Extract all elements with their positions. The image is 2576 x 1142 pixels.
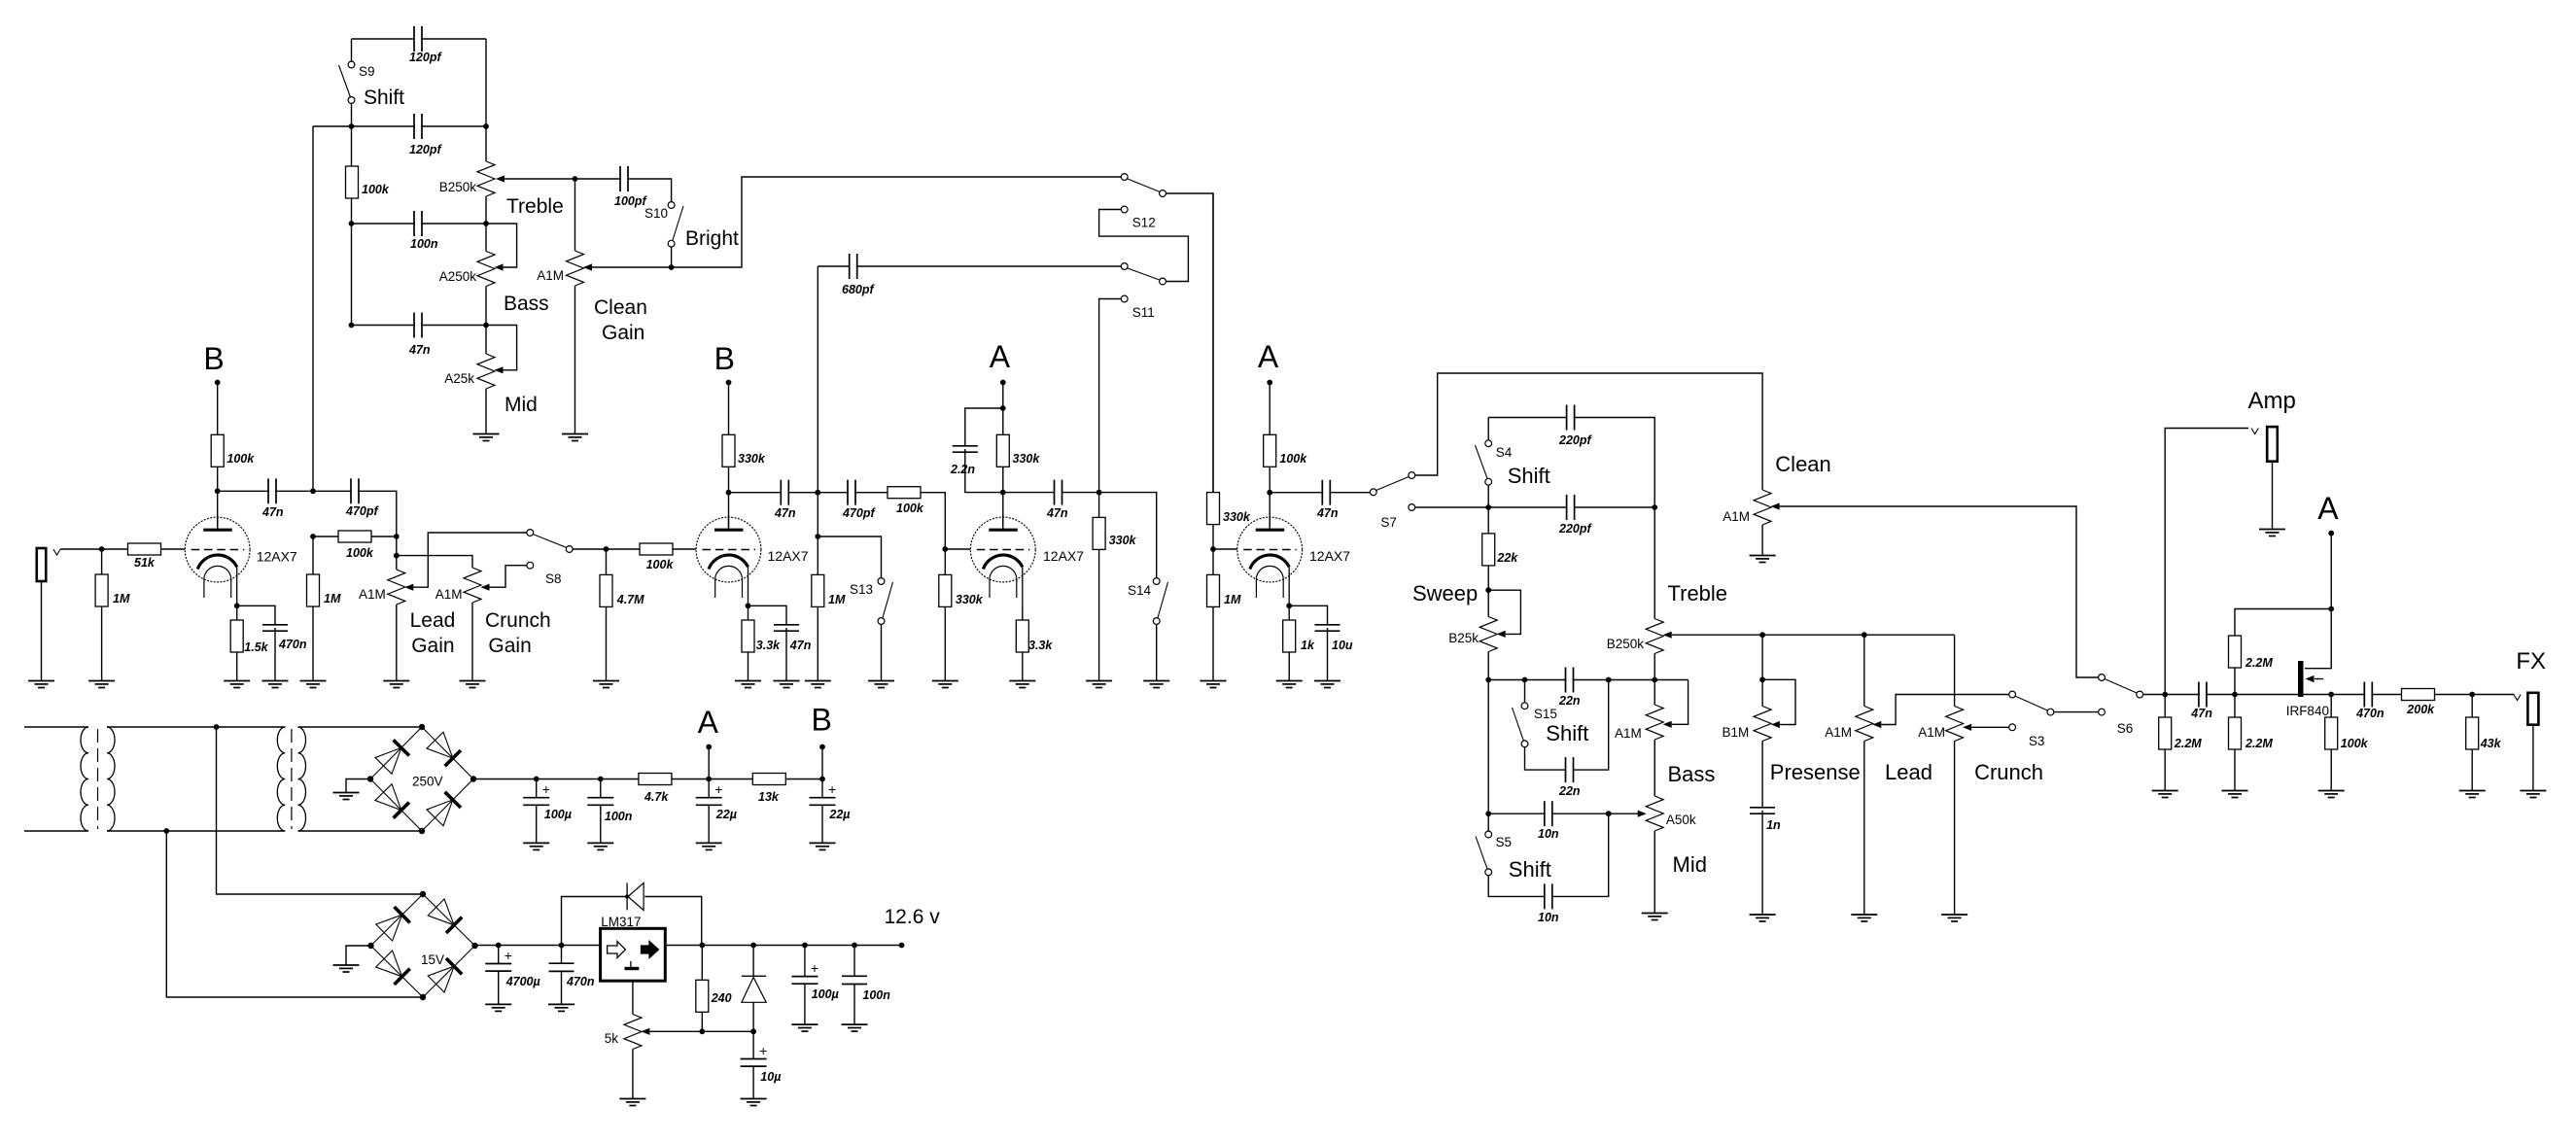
svg-text:4.7M: 4.7M xyxy=(616,593,644,606)
svg-text:3.3k: 3.3k xyxy=(1028,639,1053,652)
svg-text:S6: S6 xyxy=(2117,721,2134,736)
svg-text:S8: S8 xyxy=(545,571,562,586)
svg-text:1M: 1M xyxy=(113,592,130,606)
svg-text:Bass: Bass xyxy=(504,293,549,315)
svg-text:A1M: A1M xyxy=(435,587,463,602)
svg-text:Sweep: Sweep xyxy=(1412,581,1478,606)
svg-text:S10: S10 xyxy=(644,206,668,221)
svg-text:Clean: Clean xyxy=(594,296,647,319)
svg-text:100k: 100k xyxy=(896,502,924,515)
svg-text:12AX7: 12AX7 xyxy=(1043,548,1084,564)
svg-text:12AX7: 12AX7 xyxy=(1309,548,1350,564)
svg-text:47n: 47n xyxy=(1046,506,1068,520)
svg-text:1M: 1M xyxy=(828,593,846,606)
svg-text:250V: 250V xyxy=(412,775,443,789)
svg-text:100k: 100k xyxy=(362,183,390,196)
svg-text:47n: 47n xyxy=(408,343,431,357)
svg-text:10n: 10n xyxy=(1538,911,1559,924)
svg-text:47n: 47n xyxy=(774,506,796,520)
svg-text:22n: 22n xyxy=(1558,784,1581,798)
svg-text:Crunch: Crunch xyxy=(485,609,551,632)
svg-text:5k: 5k xyxy=(605,1031,619,1046)
svg-text:B: B xyxy=(203,341,224,376)
svg-text:Presense: Presense xyxy=(1770,760,1861,784)
svg-text:A50k: A50k xyxy=(1666,813,1696,827)
svg-text:10u: 10u xyxy=(1332,639,1353,652)
svg-text:Gain: Gain xyxy=(411,635,454,657)
svg-text:+: + xyxy=(759,1043,767,1058)
svg-text:1n: 1n xyxy=(1766,818,1781,832)
svg-text:A1M: A1M xyxy=(537,268,564,283)
svg-text:4.7k: 4.7k xyxy=(644,790,669,804)
svg-text:A1M: A1M xyxy=(1615,726,1642,741)
svg-text:+: + xyxy=(811,960,818,976)
svg-text:Crunch: Crunch xyxy=(1974,760,2043,784)
svg-text:330k: 330k xyxy=(738,452,766,466)
svg-text:A1M: A1M xyxy=(359,587,386,602)
svg-text:A: A xyxy=(990,339,1011,374)
svg-text:200k: 200k xyxy=(2406,703,2435,716)
svg-text:+: + xyxy=(714,781,722,797)
svg-text:Gain: Gain xyxy=(488,635,531,657)
svg-text:B1M: B1M xyxy=(1723,725,1750,740)
svg-text:S5: S5 xyxy=(1496,835,1513,849)
svg-text:1.5k: 1.5k xyxy=(244,640,268,654)
svg-text:S3: S3 xyxy=(2029,734,2045,748)
svg-text:Shift: Shift xyxy=(1546,721,1588,745)
svg-text:A1M: A1M xyxy=(1918,725,1945,740)
svg-text:470pf: 470pf xyxy=(345,504,379,518)
svg-text:Shift: Shift xyxy=(1508,464,1550,488)
svg-text:47n: 47n xyxy=(2190,707,2212,720)
svg-text:Shift: Shift xyxy=(364,87,404,109)
svg-text:100n: 100n xyxy=(862,988,890,1002)
svg-text:15V: 15V xyxy=(421,952,444,967)
svg-text:240: 240 xyxy=(711,991,732,1005)
svg-text:120pf: 120pf xyxy=(409,143,442,156)
svg-text:A: A xyxy=(2317,491,2339,526)
svg-text:470pf: 470pf xyxy=(842,506,876,520)
svg-text:Lead: Lead xyxy=(1885,760,1932,784)
svg-text:S11: S11 xyxy=(1132,305,1155,320)
svg-text:220pf: 220pf xyxy=(1558,522,1592,536)
svg-text:A: A xyxy=(1258,339,1279,374)
svg-text:Mid: Mid xyxy=(1673,852,1707,877)
svg-text:Treble: Treble xyxy=(1668,581,1728,606)
svg-text:S9: S9 xyxy=(359,64,375,79)
svg-text:12AX7: 12AX7 xyxy=(257,549,297,565)
svg-text:IRF840: IRF840 xyxy=(2286,704,2329,718)
svg-text:22n: 22n xyxy=(1558,694,1581,708)
svg-text:Bright: Bright xyxy=(685,227,739,250)
svg-text:S7: S7 xyxy=(1380,515,1397,530)
svg-text:470n: 470n xyxy=(2355,707,2385,720)
svg-text:100n: 100n xyxy=(410,237,438,251)
svg-text:22µ: 22µ xyxy=(715,808,737,821)
svg-text:2.2n: 2.2n xyxy=(950,463,975,476)
svg-text:+: + xyxy=(828,781,836,797)
svg-text:S14: S14 xyxy=(1128,583,1152,598)
svg-text:B25k: B25k xyxy=(1448,631,1479,645)
svg-text:Lead: Lead xyxy=(410,609,456,632)
svg-text:S12: S12 xyxy=(1132,216,1156,230)
svg-text:A1M: A1M xyxy=(1825,725,1852,740)
svg-text:A250k: A250k xyxy=(439,269,477,284)
svg-text:FX: FX xyxy=(2516,648,2546,675)
svg-text:680pf: 680pf xyxy=(842,283,875,296)
svg-text:B250k: B250k xyxy=(439,180,477,194)
svg-text:S15: S15 xyxy=(1534,707,1557,721)
svg-text:A1M: A1M xyxy=(1723,509,1750,524)
svg-text:13k: 13k xyxy=(758,790,780,804)
svg-text:2.2M: 2.2M xyxy=(2245,656,2273,670)
svg-text:47n: 47n xyxy=(789,639,812,652)
svg-text:2.2M: 2.2M xyxy=(2174,737,2202,750)
svg-text:330k: 330k xyxy=(1013,452,1041,466)
svg-text:330k: 330k xyxy=(1223,510,1251,524)
svg-text:A25k: A25k xyxy=(444,371,474,386)
svg-text:Bass: Bass xyxy=(1668,762,1716,786)
svg-text:Treble: Treble xyxy=(506,195,564,218)
svg-text:1M: 1M xyxy=(324,592,341,606)
svg-text:470n: 470n xyxy=(278,638,307,651)
svg-text:B: B xyxy=(812,703,832,738)
svg-text:100pf: 100pf xyxy=(614,194,647,208)
svg-text:100µ: 100µ xyxy=(544,808,572,821)
svg-text:S4: S4 xyxy=(1496,445,1513,460)
svg-text:4700µ: 4700µ xyxy=(505,975,540,988)
svg-text:Mid: Mid xyxy=(505,394,538,416)
svg-text:22k: 22k xyxy=(1496,551,1518,565)
svg-text:47n: 47n xyxy=(1316,506,1339,520)
svg-text:120pf: 120pf xyxy=(409,51,442,64)
svg-text:A: A xyxy=(698,705,719,740)
svg-text:10n: 10n xyxy=(1538,827,1559,841)
svg-text:100k: 100k xyxy=(346,546,374,560)
svg-text:2.2M: 2.2M xyxy=(2245,737,2273,750)
svg-text:+: + xyxy=(542,781,550,797)
svg-text:12AX7: 12AX7 xyxy=(768,548,809,564)
svg-text:1M: 1M xyxy=(1224,593,1241,606)
svg-text:B250k: B250k xyxy=(1607,637,1645,651)
svg-text:1k: 1k xyxy=(1301,639,1315,652)
svg-text:3.3k: 3.3k xyxy=(756,639,781,652)
svg-text:100k: 100k xyxy=(646,558,675,571)
svg-text:Clean: Clean xyxy=(1775,452,1830,476)
svg-text:100k: 100k xyxy=(226,452,255,466)
svg-text:220pf: 220pf xyxy=(1558,433,1592,447)
svg-text:LM317: LM317 xyxy=(601,915,641,929)
svg-text:470n: 470n xyxy=(566,975,595,988)
svg-text:+: + xyxy=(505,948,512,963)
svg-text:22µ: 22µ xyxy=(828,808,850,821)
svg-text:B: B xyxy=(714,341,735,376)
svg-text:330k: 330k xyxy=(1109,534,1137,547)
svg-text:Gain: Gain xyxy=(602,322,644,344)
svg-text:51k: 51k xyxy=(134,556,156,570)
svg-text:100n: 100n xyxy=(605,810,633,823)
svg-text:12.6 v: 12.6 v xyxy=(885,906,941,928)
svg-text:43k: 43k xyxy=(2480,737,2502,750)
svg-text:100µ: 100µ xyxy=(812,987,839,1001)
svg-text:100k: 100k xyxy=(1279,452,1307,466)
svg-text:100k: 100k xyxy=(2341,737,2369,750)
svg-text:Amp: Amp xyxy=(2248,388,2296,414)
svg-text:330k: 330k xyxy=(956,593,984,606)
svg-text:S13: S13 xyxy=(850,582,873,597)
svg-text:47n: 47n xyxy=(261,505,284,519)
svg-text:Shift: Shift xyxy=(1509,857,1551,882)
svg-text:10µ: 10µ xyxy=(760,1070,781,1084)
